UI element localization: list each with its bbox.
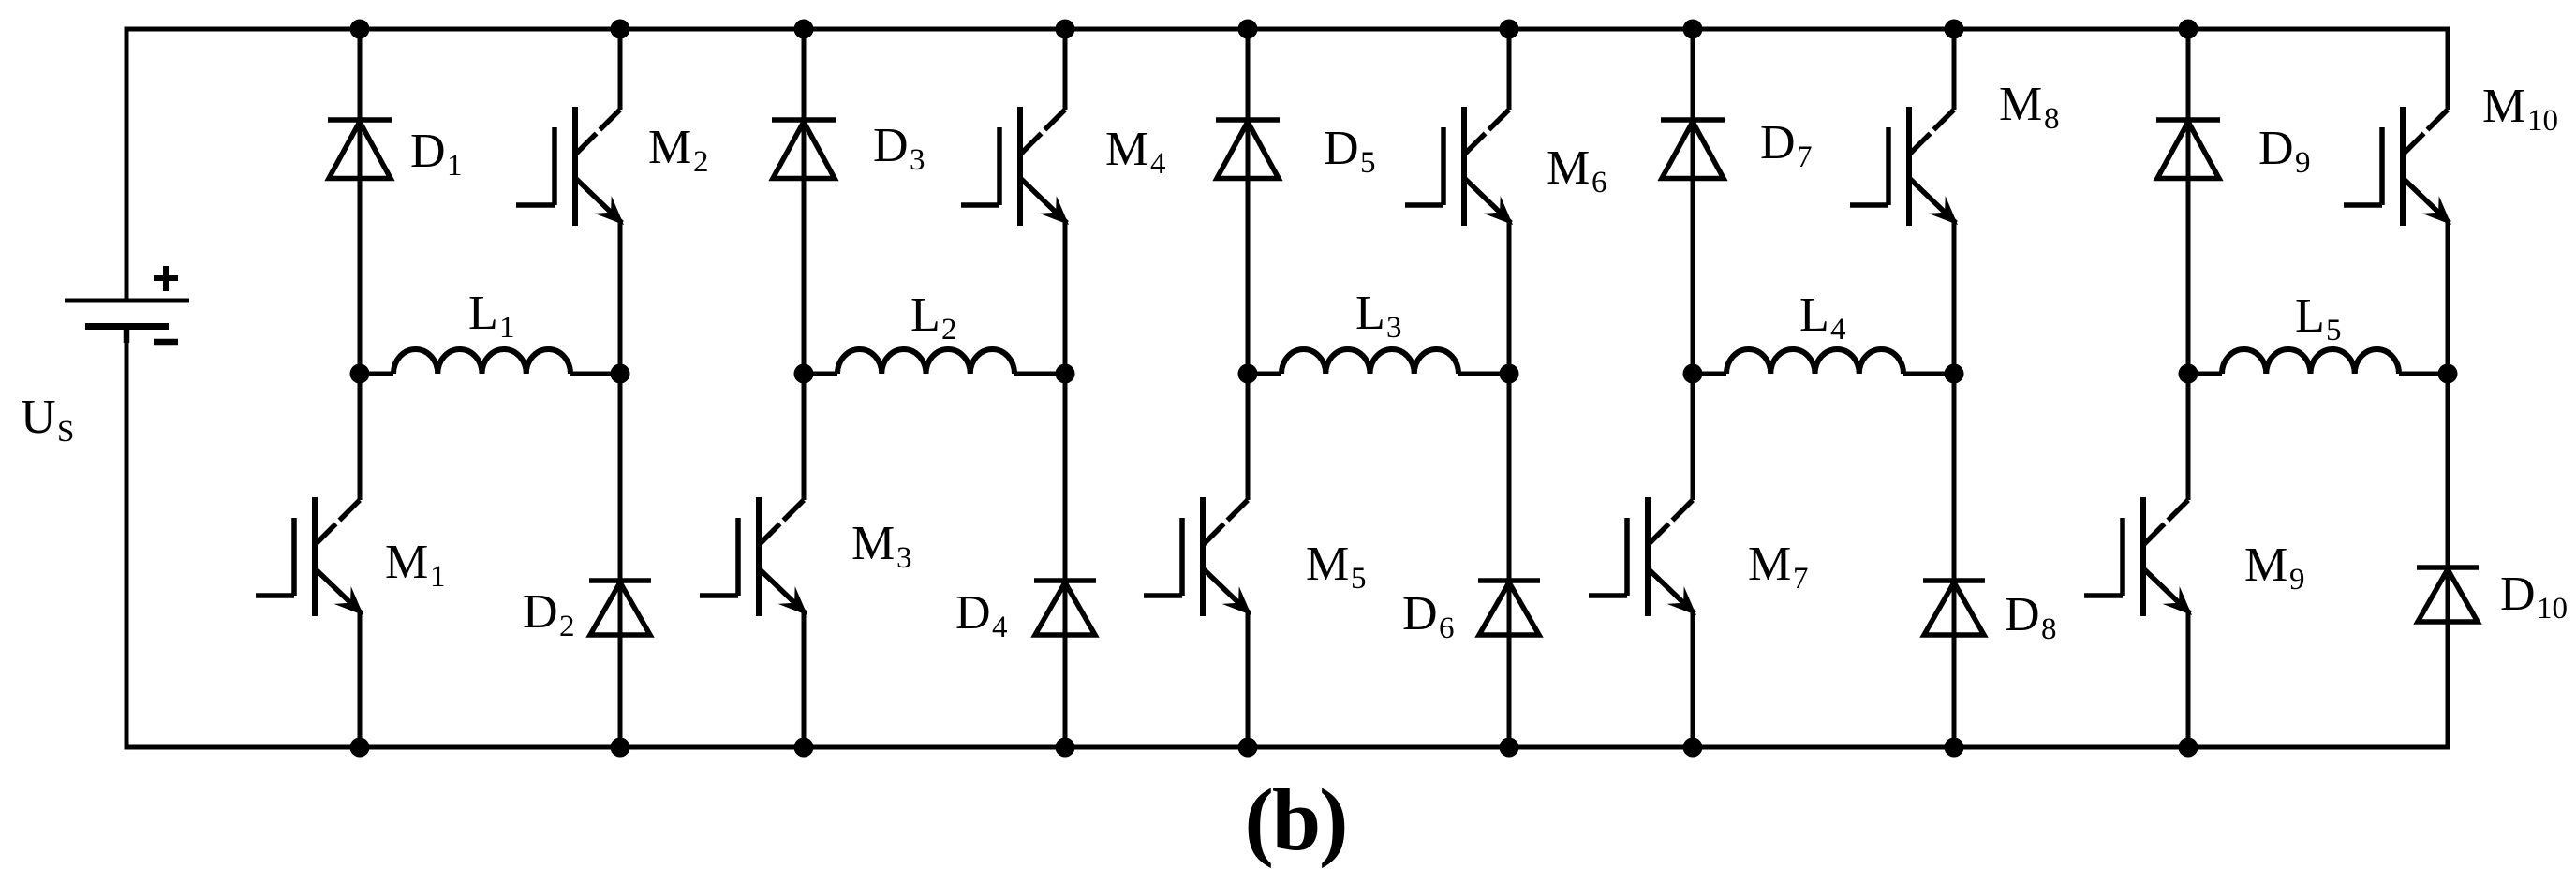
wire M8 collector from top rail: [1952, 29, 1957, 110]
svg-text:L: L: [2295, 289, 2325, 343]
diode D5: [1216, 120, 1280, 179]
svg-text:M: M: [1748, 538, 1791, 591]
label D8: [2005, 588, 2057, 646]
svg-text:4: 4: [1830, 313, 1846, 346]
svg-text:5: 5: [1351, 562, 1367, 596]
diode D8: [1923, 581, 1985, 635]
wire M1 emitter to bottom rail: [358, 611, 363, 747]
label M4: [1105, 123, 1166, 181]
node mid at M2: [611, 364, 630, 384]
svg-text:9: 9: [2289, 563, 2305, 597]
label D4: [955, 586, 1008, 644]
label D9: [2258, 122, 2311, 180]
wire D5 branch upper: [1246, 29, 1251, 500]
junction bottom rail at M5: [1238, 738, 1258, 758]
label L5: [2295, 289, 2342, 347]
junction bottom rail at D4: [1056, 738, 1075, 758]
junction top rail at D5: [1238, 20, 1258, 39]
wire M4 emitter through mid node to bottom rail: [1063, 221, 1068, 747]
diode D10: [2417, 567, 2479, 622]
svg-text:M: M: [2482, 80, 2525, 133]
svg-text:4: 4: [992, 611, 1008, 644]
svg-text:10: 10: [2527, 104, 2558, 138]
inductor L3: [1248, 349, 1509, 374]
svg-text:M: M: [2244, 538, 2287, 592]
svg-text:10: 10: [2537, 592, 2568, 626]
junction top rail at M6: [1500, 20, 1519, 39]
svg-text:9: 9: [2295, 146, 2311, 180]
label L1: [468, 287, 515, 345]
diode D3: [772, 120, 836, 179]
transistor M4 (IGBT): [961, 107, 1069, 226]
voltage source US (battery): [65, 301, 189, 343]
svg-text:D: D: [410, 125, 446, 178]
svg-text:M: M: [1306, 538, 1349, 591]
transistor M8 (IGBT): [1850, 107, 1958, 226]
wire M2 collector from top rail: [618, 29, 623, 110]
caption (b): [1245, 772, 1347, 869]
svg-text:M: M: [385, 536, 428, 589]
label M1: [385, 536, 446, 594]
battery plus sign: [154, 266, 178, 291]
svg-text:D: D: [1760, 116, 1796, 169]
svg-text:(b): (b): [1245, 772, 1347, 869]
svg-text:3: 3: [1386, 311, 1402, 345]
svg-text:D: D: [2258, 122, 2294, 175]
node mid at M6: [1500, 364, 1519, 384]
label L4: [1799, 288, 1846, 346]
svg-text:L: L: [1355, 287, 1385, 340]
label M8: [1999, 78, 2060, 136]
wire M3 emitter to bottom rail: [802, 611, 807, 747]
transistor M1 (IGBT): [256, 497, 363, 616]
svg-text:M: M: [1999, 78, 2042, 131]
svg-text:M: M: [648, 121, 691, 174]
junction bottom rail at D8: [1945, 738, 1964, 758]
diode D4: [1034, 581, 1096, 635]
svg-text:M: M: [1105, 123, 1148, 176]
svg-text:U: U: [21, 390, 56, 444]
svg-text:D: D: [1402, 587, 1438, 641]
label D1: [410, 125, 463, 183]
battery minus sign: [154, 339, 178, 346]
svg-text:3: 3: [910, 143, 925, 177]
junction bottom rail at M3: [794, 738, 814, 758]
node mid at D9: [2179, 364, 2198, 384]
junction top rail at D9: [2179, 20, 2198, 39]
wire M9 emitter to bottom rail: [2186, 611, 2191, 747]
junction top rail at D3: [794, 20, 814, 39]
wire M8 emitter through mid node to bottom rail: [1952, 221, 1957, 747]
diode D6: [1478, 581, 1540, 635]
svg-text:M: M: [851, 517, 895, 570]
label D6: [1402, 587, 1455, 645]
inductor L2: [804, 349, 1065, 374]
transistor M10 (IGBT): [2344, 107, 2451, 226]
node mid at M8: [1945, 364, 1964, 384]
svg-text:D: D: [2500, 567, 2536, 621]
junction bottom rail at M1: [350, 738, 370, 758]
label D3: [873, 119, 925, 177]
junction top rail at M2: [611, 20, 630, 39]
wire top rail and left feed: [126, 29, 2448, 301]
label M9: [2244, 538, 2305, 597]
wire M6 emitter through mid node to bottom rail: [1507, 221, 1512, 747]
wire M6 collector from top rail: [1507, 29, 1512, 110]
label US: [21, 390, 74, 449]
inductor L5: [2188, 349, 2448, 374]
wire D9 branch upper: [2186, 29, 2191, 500]
svg-text:1: 1: [430, 560, 446, 594]
svg-text:4: 4: [1150, 147, 1166, 181]
svg-text:S: S: [57, 415, 74, 449]
wire M10 emitter through mid node to bottom rail: [2446, 221, 2450, 747]
wire M2 emitter through mid node to bottom rail: [618, 221, 623, 747]
svg-text:1: 1: [499, 311, 515, 345]
svg-text:7: 7: [1797, 140, 1813, 174]
junction top rail at D7: [1683, 20, 1703, 39]
label L3: [1355, 287, 1402, 345]
diode D2: [589, 581, 651, 635]
transistor M9 (IGBT): [2084, 497, 2192, 616]
transistor M6 (IGBT): [1405, 107, 1513, 226]
svg-text:D: D: [873, 119, 909, 172]
label M2: [648, 121, 709, 179]
label D5: [1324, 122, 1376, 180]
svg-text:5: 5: [1360, 146, 1376, 180]
label D7: [1760, 116, 1813, 174]
transistor M2 (IGBT): [516, 107, 624, 226]
wire bottom rail and left return: [126, 327, 2449, 748]
label M6: [1547, 141, 1607, 199]
node mid at D1: [350, 364, 370, 384]
node mid at D3: [794, 364, 814, 384]
svg-text:8: 8: [2044, 102, 2060, 136]
svg-text:D: D: [955, 586, 991, 640]
label L2: [910, 288, 957, 346]
wire M5 emitter to bottom rail: [1246, 611, 1251, 747]
svg-text:2: 2: [693, 145, 709, 179]
svg-text:2: 2: [559, 610, 575, 643]
svg-text:D: D: [2005, 588, 2040, 641]
label M7: [1748, 538, 1809, 596]
svg-text:8: 8: [2041, 612, 2057, 646]
svg-text:6: 6: [1439, 611, 1455, 645]
transistor M3 (IGBT): [700, 497, 807, 616]
inductor L4: [1693, 349, 1954, 374]
label M5: [1306, 538, 1367, 596]
svg-text:6: 6: [1591, 166, 1607, 199]
svg-text:D: D: [523, 585, 558, 639]
transistor M5 (IGBT): [1144, 497, 1251, 616]
transistor M7 (IGBT): [1589, 497, 1696, 616]
svg-text:M: M: [1547, 141, 1590, 195]
label M3: [851, 517, 912, 575]
label M10: [2482, 80, 2558, 138]
junction top rail at D1: [350, 20, 370, 39]
wire D7 branch upper: [1691, 29, 1695, 500]
label D10: [2500, 567, 2568, 626]
wire M7 emitter to bottom rail: [1691, 611, 1695, 747]
svg-text:5: 5: [2326, 314, 2342, 347]
label D2: [523, 585, 575, 643]
junction top rail at M4: [1056, 20, 1075, 39]
inductor L1: [360, 349, 620, 374]
junction top rail at M8: [1945, 20, 1964, 39]
node mid at D5: [1238, 364, 1258, 384]
junction bottom rail at M7: [1683, 738, 1703, 758]
diode D7: [1661, 120, 1725, 179]
node mid at M10: [2438, 364, 2458, 384]
wire M4 collector from top rail: [1063, 29, 1068, 110]
junction bottom rail at D2: [611, 738, 630, 758]
svg-text:2: 2: [941, 313, 957, 346]
svg-text:7: 7: [1793, 562, 1809, 596]
svg-text:1: 1: [447, 149, 463, 183]
junction bottom rail at M9: [2179, 738, 2198, 758]
node mid at D7: [1683, 364, 1703, 384]
svg-text:L: L: [468, 287, 498, 340]
svg-text:L: L: [910, 288, 940, 342]
svg-text:L: L: [1799, 288, 1829, 342]
node mid at M4: [1056, 364, 1075, 384]
svg-text:3: 3: [896, 541, 912, 575]
diode D1: [328, 120, 392, 179]
junction bottom rail at D6: [1500, 738, 1519, 758]
wire D1 branch upper: [358, 29, 363, 500]
wire D3 branch upper: [802, 29, 807, 500]
svg-text:D: D: [1324, 122, 1359, 175]
diode D9: [2156, 120, 2220, 179]
